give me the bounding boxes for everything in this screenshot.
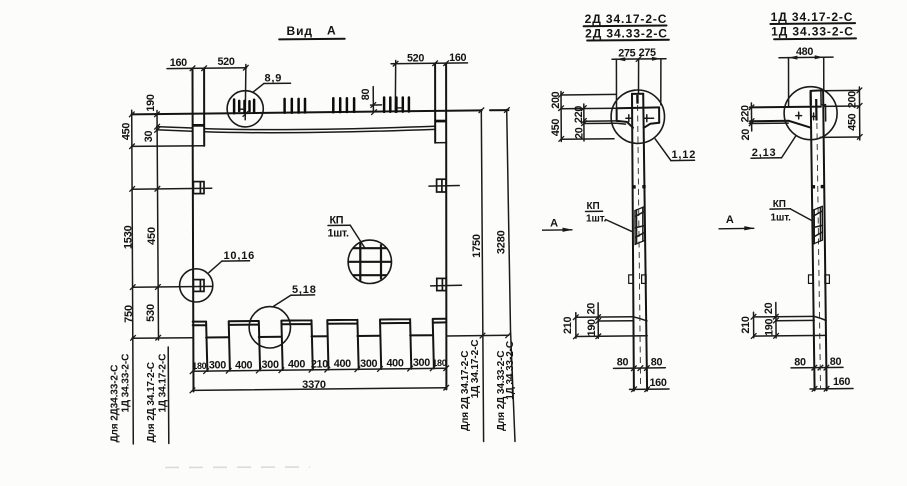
top-right dimension line 520/160 [391, 52, 468, 112]
svg-text:80: 80 [794, 356, 806, 368]
side view 2 post [811, 90, 827, 390]
side view 1 left dims 200/450 [550, 91, 617, 141]
right column stub [435, 63, 447, 143]
side view 1 plus marks [626, 115, 654, 122]
svg-text:400: 400 [334, 358, 351, 370]
panel right edge [445, 143, 447, 390]
detail circle 8,9 [227, 73, 290, 127]
svg-text:Для 2Д34.33-2-С: Для 2Д34.33-2-С [110, 365, 121, 443]
side view 1 dims 80/80 [614, 356, 666, 371]
svg-text:2Д 34.17-2-С: 2Д 34.17-2-С [585, 12, 668, 26]
side view 2 dim 160 [810, 376, 853, 392]
svg-text:30: 30 [143, 131, 155, 143]
svg-text:190: 190 [764, 319, 776, 336]
svg-text:А: А [550, 218, 558, 230]
side view 2 lug rects mid [809, 275, 830, 284]
svg-text:210: 210 [311, 358, 328, 370]
right dimension line 3280 [496, 107, 516, 441]
svg-text:210: 210 [740, 316, 752, 333]
side view 1 detail circle [611, 90, 664, 143]
side view 2 dim 480 [779, 46, 833, 107]
svg-text:300: 300 [360, 358, 377, 370]
svg-text:1Д 34.33-2-С: 1Д 34.33-2-С [505, 341, 516, 400]
label KP 1sht (view2) [770, 199, 813, 223]
svg-text:1шт.: 1шт. [586, 214, 607, 225]
svg-text:КП: КП [587, 201, 600, 212]
panel left edge [192, 146, 195, 392]
svg-text:1,12: 1,12 [672, 149, 697, 161]
side view 2 header [770, 10, 856, 39]
svg-text:450: 450 [121, 123, 133, 140]
svg-text:3280: 3280 [496, 230, 508, 254]
svg-text:480: 480 [796, 46, 813, 58]
left edge lug 1 [132, 182, 212, 194]
side view 2 notch [821, 90, 826, 121]
side view 2 arm [750, 107, 821, 128]
svg-text:80: 80 [360, 89, 372, 101]
svg-text:520: 520 [217, 56, 234, 68]
side view 1 hatch strip KP [635, 207, 645, 245]
detail circle 5,18 [249, 284, 317, 348]
side view 2 plus marks [796, 112, 817, 120]
svg-text:400: 400 [288, 359, 305, 371]
label 2,13 [751, 136, 796, 159]
svg-text:1750: 1750 [471, 234, 483, 258]
svg-text:80: 80 [830, 356, 842, 368]
svg-text:520: 520 [407, 53, 424, 65]
svg-text:1Д 34.33-2-С: 1Д 34.33-2-С [121, 354, 132, 413]
svg-text:Для 2Д 34.17-2-С: Для 2Д 34.17-2-С [146, 362, 157, 442]
side view 2 joint lines [754, 316, 827, 336]
side view 2 detail circle [784, 87, 837, 140]
top-left dimension line 160/520 [167, 56, 249, 120]
svg-text:300: 300 [413, 357, 430, 369]
svg-text:А: А [327, 24, 337, 38]
svg-text:180: 180 [432, 358, 446, 368]
svg-text:20: 20 [740, 129, 752, 141]
left tick lines [132, 337, 193, 340]
svg-text:10,16: 10,16 [224, 250, 256, 262]
svg-text:1530: 1530 [122, 225, 134, 249]
svg-text:275: 275 [618, 47, 635, 59]
svg-text:1Д 34.33-2-С: 1Д 34.33-2-С [771, 25, 854, 39]
right edge lug 1 [429, 179, 459, 192]
side view 1 joint lines [576, 317, 647, 337]
svg-text:80: 80 [617, 357, 629, 369]
side view 1 left dims 220/20 [573, 104, 617, 141]
svg-text:1шт.: 1шт. [771, 213, 792, 224]
label KP 1sht (view1) [586, 201, 632, 231]
svg-text:190: 190 [586, 319, 598, 336]
bottom rib feet [193, 319, 447, 371]
title Vid A [279, 24, 345, 40]
view direction arrow A (view2) [719, 214, 755, 230]
right dimension line 1750 [471, 108, 484, 442]
svg-text:Вид: Вид [287, 24, 313, 38]
dowel group 2 [285, 99, 305, 113]
left dimension line A [129, 110, 136, 444]
svg-text:80: 80 [651, 356, 663, 368]
dowel group 3 [333, 98, 354, 112]
right bottom tick line [446, 333, 511, 339]
left edge lug 2 [133, 280, 212, 292]
dowel group 1 [234, 100, 254, 114]
panel bottom edge segments [206, 335, 433, 337]
left text block [110, 347, 169, 444]
svg-text:3370: 3370 [302, 379, 326, 391]
bottom cell numbers [192, 357, 447, 371]
svg-text:20: 20 [573, 127, 585, 139]
label KP 1sht (main) [328, 214, 365, 247]
left column stub [132, 68, 205, 146]
side view 2 left dims 220/20 [739, 103, 754, 141]
side view 1 lug marks upper [632, 185, 645, 189]
side view 1 dim 275 275 [612, 47, 666, 107]
svg-text:1Д 34.17-2-С: 1Д 34.17-2-С [771, 10, 854, 24]
svg-text:220: 220 [739, 105, 751, 122]
detail circle 10,16 [180, 250, 255, 302]
svg-text:750: 750 [123, 305, 135, 323]
svg-text:160: 160 [833, 376, 850, 388]
svg-text:220: 220 [573, 106, 585, 123]
svg-text:400: 400 [386, 358, 403, 370]
svg-text:160: 160 [649, 377, 666, 389]
svg-text:200: 200 [550, 91, 562, 108]
svg-text:400: 400 [235, 359, 252, 371]
side view 1 lug rects mid [629, 275, 646, 284]
dimension 3370 [190, 379, 449, 393]
svg-text:450: 450 [146, 227, 158, 245]
side view 2 lug marks upper [812, 185, 824, 189]
svg-text:1Д 34.17-2-С: 1Д 34.17-2-С [470, 340, 481, 399]
label 1,12 [655, 139, 696, 161]
svg-text:300: 300 [262, 359, 279, 371]
left dim texts middle [122, 225, 158, 322]
side view 1 header [584, 12, 669, 40]
view direction arrow A (view1) [542, 218, 573, 232]
beam top chord line [132, 110, 509, 114]
svg-text:530: 530 [145, 304, 157, 322]
beam bottom double lines [156, 126, 435, 132]
svg-text:2Д 34.33-2-С: 2Д 34.33-2-С [585, 27, 668, 41]
side view 1 dims 210/20/190 [562, 303, 601, 339]
side view 2 dims 210/20/190 [740, 302, 779, 338]
right edge lug 2 [431, 278, 462, 290]
left dimension line B [154, 111, 161, 341]
svg-text:КП: КП [330, 214, 344, 226]
svg-text:1шт.: 1шт. [328, 228, 349, 240]
faint scan smudge [165, 466, 310, 469]
svg-text:210: 210 [562, 317, 574, 334]
side view 1 arm [617, 107, 660, 127]
svg-text:20: 20 [763, 302, 775, 314]
dowel group 4 [384, 98, 409, 112]
side view 2 dims 80/80 [791, 356, 843, 371]
side view 1 dim 160 [630, 377, 670, 392]
svg-text:300: 300 [209, 360, 226, 372]
right text block [460, 340, 516, 431]
side view 2 hatch strip KP [813, 206, 823, 244]
svg-text:180: 180 [192, 361, 206, 371]
svg-text:450: 450 [550, 119, 562, 136]
svg-text:450: 450 [847, 113, 859, 130]
dimension 80 at dowels [360, 87, 382, 115]
svg-text:5,18: 5,18 [292, 284, 317, 296]
mesh detail circle KP [348, 240, 391, 283]
svg-text:160: 160 [170, 57, 187, 69]
svg-text:160: 160 [449, 52, 466, 64]
svg-text:А: А [726, 214, 734, 226]
side view 1 post [632, 94, 647, 391]
left dim texts top [121, 94, 158, 142]
svg-text:1Д 34.17-2-С: 1Д 34.17-2-С [158, 354, 169, 413]
side view 2 right dims 200/450 [820, 87, 863, 140]
svg-text:20: 20 [585, 303, 597, 315]
bottom cell dimension line [190, 365, 449, 374]
svg-text:190: 190 [145, 94, 157, 111]
